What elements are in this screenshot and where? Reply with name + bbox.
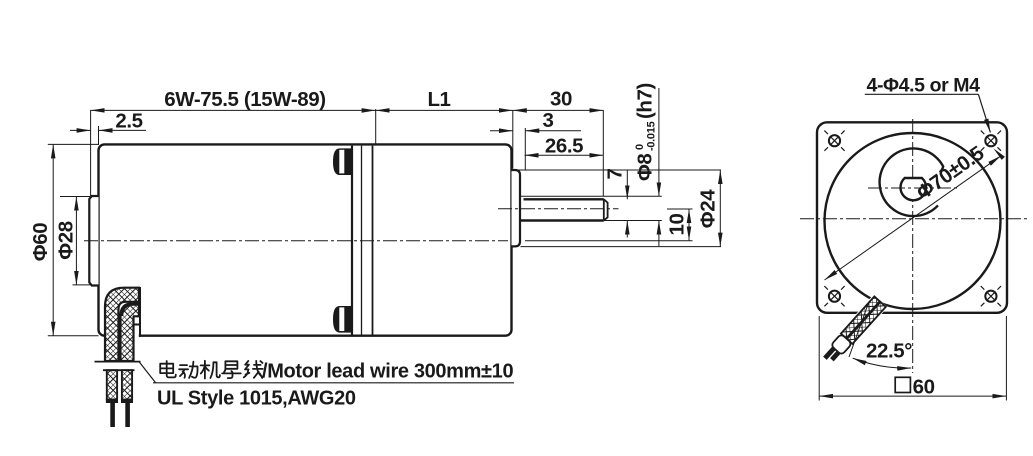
angle extension line [849,303,869,357]
dim 7 [626,170,628,199]
seam line thin [361,146,363,335]
seam line motor/end-cap [351,146,353,335]
ext line motor/gear joint [375,109,377,144]
wire break mark [95,361,141,363]
dim 26.5 [525,154,604,156]
diagonal hole centerlines [824,131,1001,307]
rear boss phi28 [89,196,98,286]
C spring arc [880,148,944,216]
svg-text:Φ60: Φ60 [29,223,52,261]
shaft flat line [524,198,604,200]
dim phi8 [658,88,660,196]
svg-text:/Motor lead wire 300mm±10: /Motor lead wire 300mm±10 [262,361,513,383]
wire guard line [139,287,141,337]
dim 3 [490,130,513,132]
svg-text:2.5: 2.5 [115,110,142,133]
shaft end chamfer [603,199,605,220]
char 导 [222,361,241,378]
shaft phi8 tangent thin line [521,195,662,197]
gearbox circle [825,133,1001,309]
dim 10 [688,209,690,240]
dim phi24 [719,170,721,247]
screw top [333,148,352,175]
front boss phi24 [512,170,521,246]
ext line boss top [513,169,721,171]
dim phi28 [75,197,77,286]
lead wire A [105,288,139,361]
ext lines phi28 [60,196,90,198]
svg-text:Φ8: Φ8 [634,154,657,181]
stripped wire ends below break [107,370,117,400]
ext line flat start [524,128,526,170]
char 电 [160,361,176,377]
ext line shaft end [602,110,604,196]
phi8 tolerance text rotated [634,83,658,181]
svg-text:26.5: 26.5 [545,135,583,158]
svg-text:L1: L1 [427,88,450,111]
phi70 dimension diagonal [825,156,1002,280]
motor body outline [99,144,512,335]
gearbox square face [817,122,1007,312]
svg-text:UL Style 1015,AWG20: UL Style 1015,AWG20 [157,388,356,410]
svg-text:(h7): (h7) [634,83,657,119]
svg-text:Φ24: Φ24 [697,189,720,228]
wire exit gap in body bottom [104,332,139,341]
leader to wire note [139,362,156,383]
ext line body left above [98,126,100,145]
seam line gearbox flange [372,146,374,335]
lead wire B [121,303,140,361]
screw bottom [333,306,352,333]
svg-text:30: 30 [550,88,572,111]
char 动 [179,362,197,378]
svg-text:60: 60 [913,376,935,399]
dim 30 [513,109,604,111]
chinese characters drawn as paths: 电动机导线 at x157..260 y360..380 [160,361,263,379]
dim L1 [376,109,513,111]
wires right view [820,294,888,366]
shaft centerline [498,208,619,210]
shaft centerline horizontal [868,187,958,189]
bare wire tips [110,403,115,427]
ext line boss bottom [521,246,722,248]
dim phi60 [52,144,54,335]
22.5 arc [853,358,912,368]
svg-text:Φ28: Φ28 [55,221,78,259]
ext line body center right [525,240,693,242]
svg-text:6W-75.5 (15W-89): 6W-75.5 (15W-89) [164,88,325,111]
ext line shaft bottom right [604,220,662,222]
centerline horizontal [800,218,1028,220]
svg-text:3: 3 [542,109,553,132]
dim 75.5 [91,109,376,111]
ext line rear boss face [90,110,92,196]
ext line gearbox face [512,110,514,169]
svg-text:7: 7 [604,168,627,179]
svg-text:0: 0 [634,144,646,150]
ext lines phi60 [48,143,99,145]
shaft bottom line [520,219,604,221]
svg-text:22.5°: 22.5° [866,340,912,363]
char 线 [244,361,263,378]
ext line shaft center right [667,208,693,210]
svg-text:10: 10 [666,213,689,235]
centerline vertical [912,119,914,373]
dim 2.5 [70,129,91,131]
svg-text:-0.015: -0.015 [646,121,658,151]
shaft circle with flat [901,178,927,200]
svg-text:4-Φ4.5 or M4: 4-Φ4.5 or M4 [867,74,981,96]
mounting holes [829,135,997,302]
body centerline [84,240,508,242]
dim square60 [818,316,820,401]
char 机 [201,361,220,379]
